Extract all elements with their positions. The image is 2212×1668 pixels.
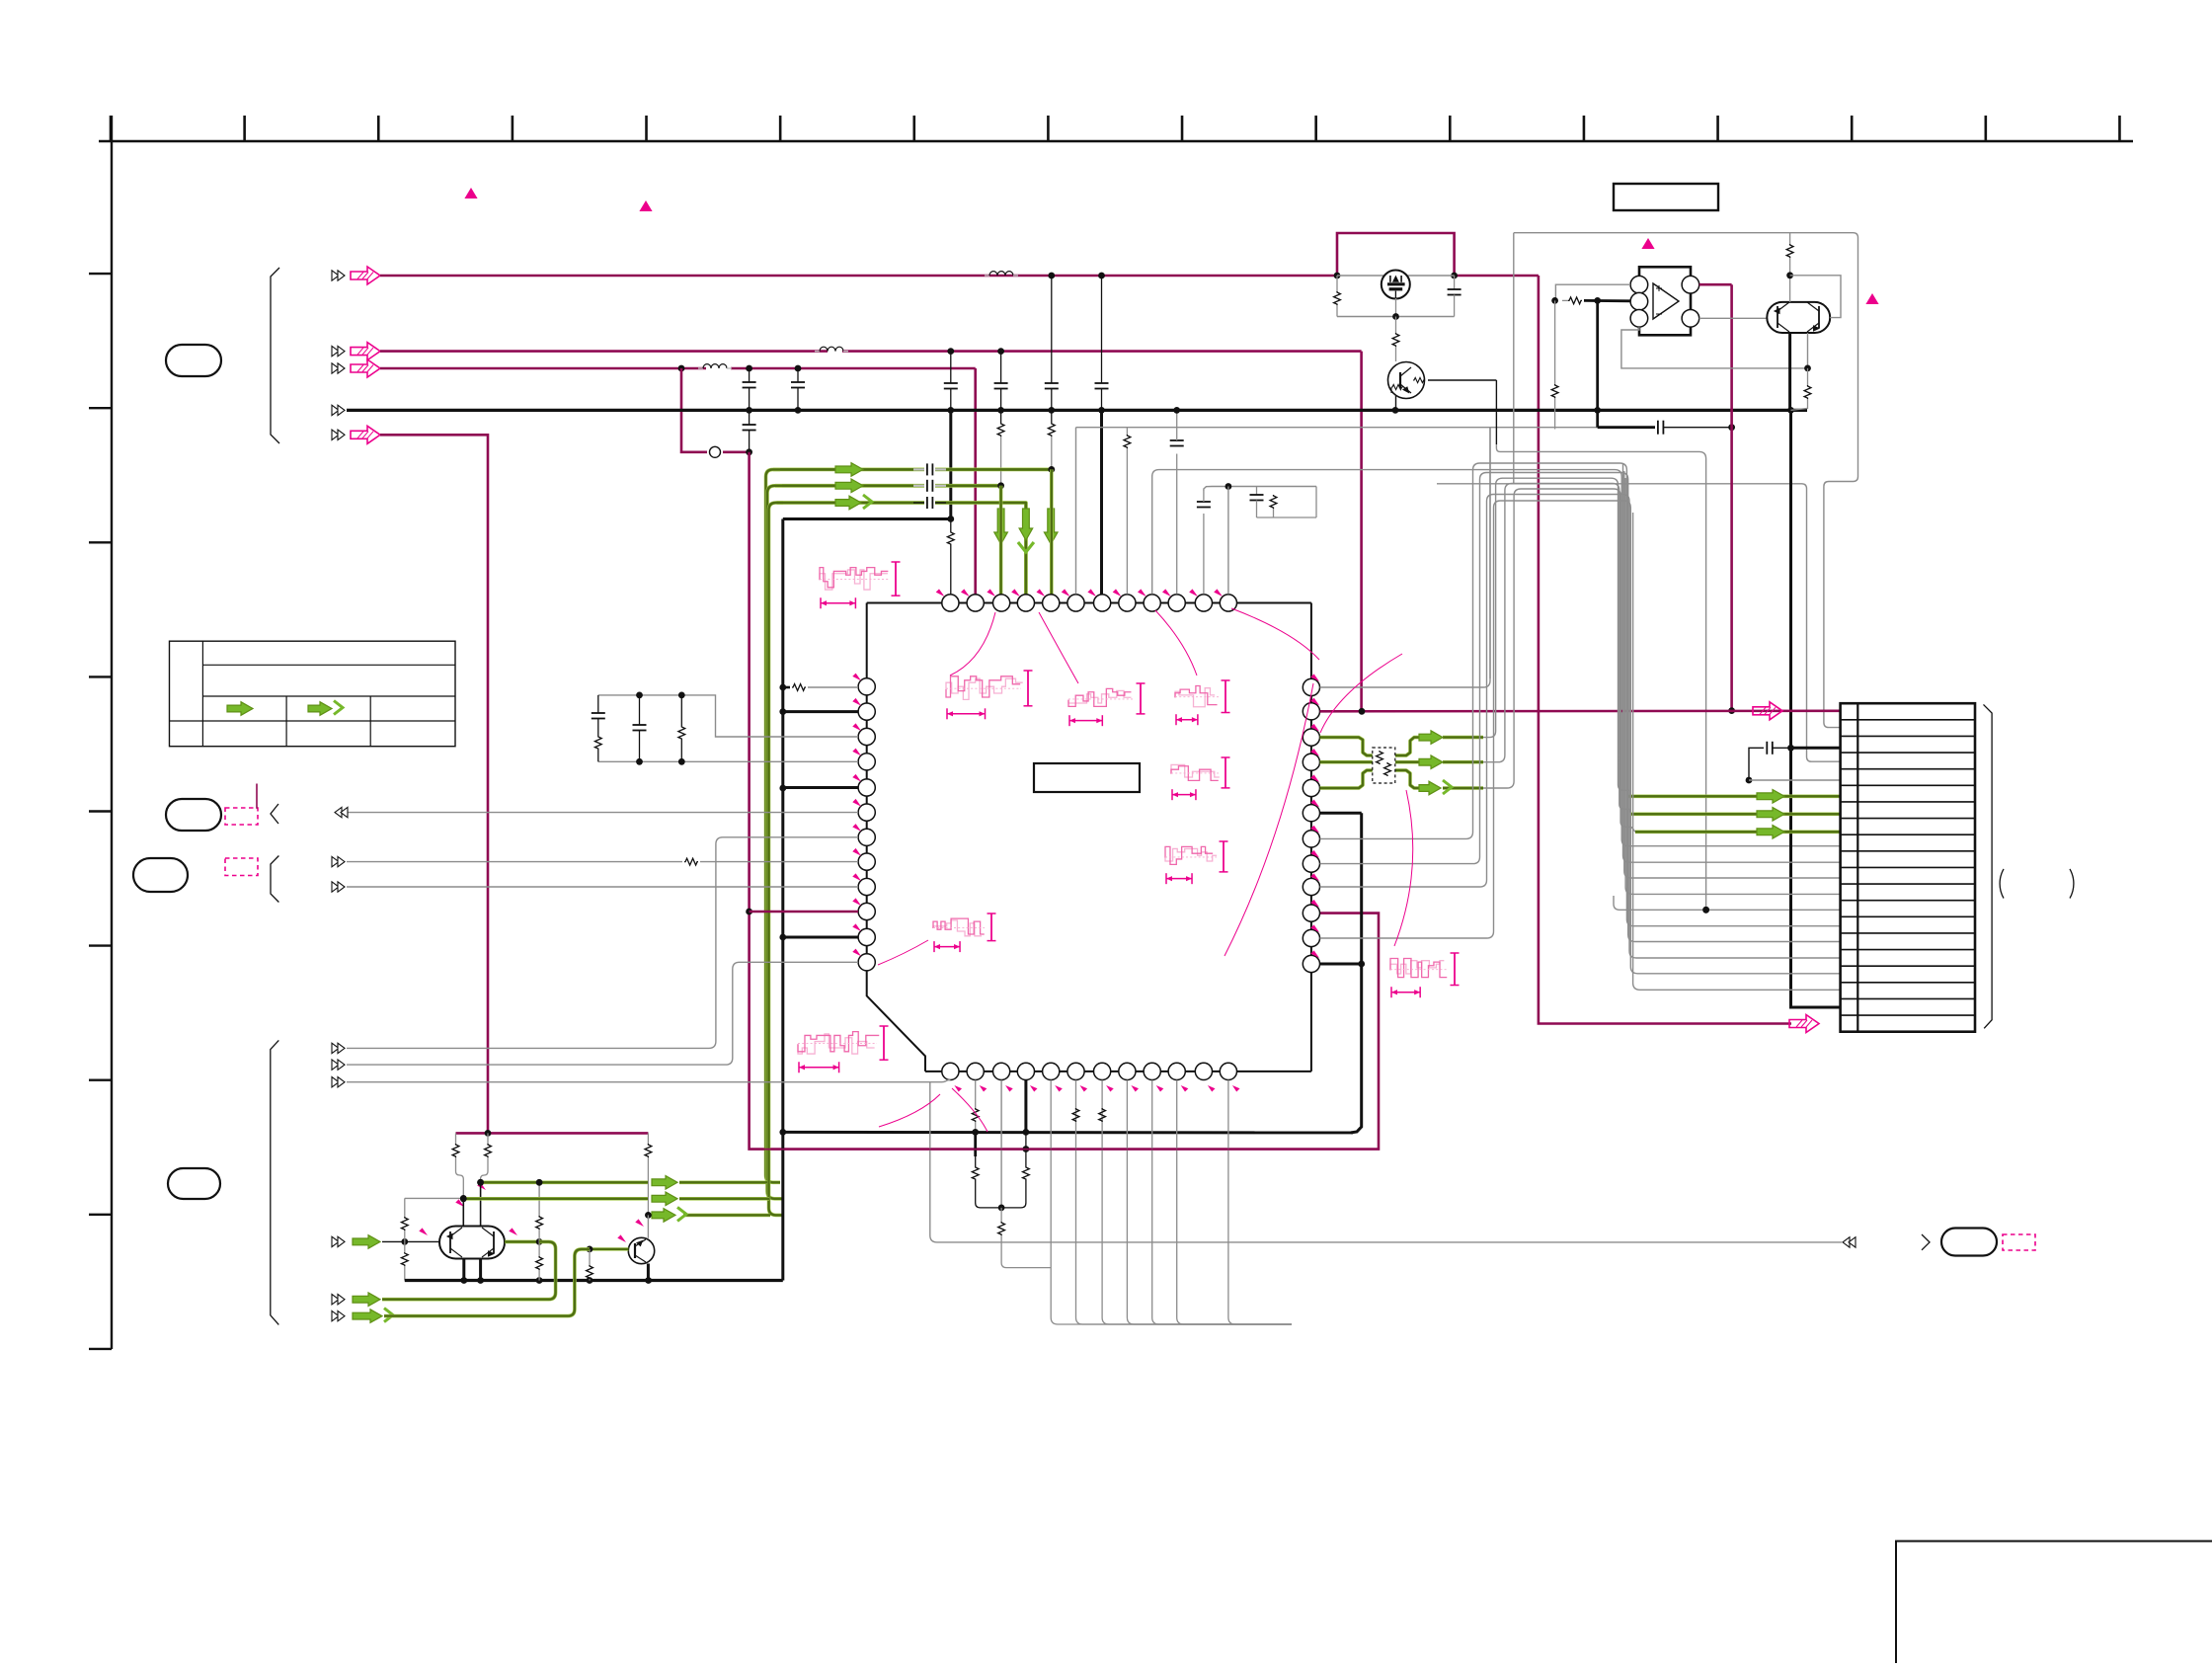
bracket input group 3 bbox=[271, 1040, 279, 1324]
wire cap to row4 bbox=[1773, 747, 1791, 749]
green arrow R4 bbox=[1419, 755, 1443, 769]
paren right bbox=[2070, 869, 2074, 899]
resistor R8 bbox=[678, 695, 685, 761]
wire op-amp minus input bbox=[1584, 299, 1630, 302]
op-amp U2 pins bbox=[1630, 276, 1699, 327]
resistor R2 bbox=[1392, 317, 1399, 362]
dashed ref box 1 bbox=[225, 808, 258, 825]
junction green rows btm bbox=[460, 1179, 652, 1219]
chevron in row 1095 bbox=[332, 1077, 345, 1087]
green arrow down t5 bbox=[1044, 509, 1058, 544]
wire black left vertical bbox=[781, 519, 784, 1281]
signal arrow row1 bbox=[351, 267, 380, 284]
wire pin L7 route bbox=[347, 837, 858, 1049]
green arrow row A bbox=[835, 463, 863, 477]
capacitor C2 bbox=[1658, 421, 1664, 435]
label box (IC ref, top right) bbox=[1614, 184, 1718, 210]
wire Q4 right leg bbox=[1807, 333, 1809, 368]
transistor Q2 stadium bbox=[439, 1227, 505, 1259]
resistor R21 bbox=[645, 1133, 652, 1215]
wire Q5 emitter bbox=[1395, 395, 1397, 410]
inductor L2 row2 bbox=[815, 347, 848, 351]
wire pin L12 route bbox=[347, 962, 858, 1065]
wire pin L4 RC bbox=[598, 760, 858, 762]
wire Q1 source rail bbox=[1337, 298, 1455, 317]
signal arrow to CN row24 bbox=[1789, 1015, 1819, 1033]
resistor R23 bbox=[401, 1241, 408, 1280]
wire green CN row8 bbox=[1635, 830, 1841, 834]
inductor L1 row1 bbox=[985, 272, 1018, 276]
junction CN grey bbox=[1702, 907, 1709, 913]
wire crimson row5 bbox=[380, 435, 488, 1133]
bracket input group 2 bbox=[271, 856, 278, 903]
wire black bus2 bbox=[405, 1279, 783, 1282]
dashed ref box 3 bbox=[2003, 1234, 2035, 1250]
green arrow down t3 bbox=[994, 509, 1008, 544]
wire grey Q1 row bbox=[1337, 275, 1455, 277]
waveform w5 bbox=[1171, 757, 1230, 800]
junction b4 bbox=[1023, 1129, 1030, 1152]
wire black to pin t7 bbox=[1100, 410, 1103, 594]
wire green row A bbox=[773, 467, 1052, 471]
IC U1 bottom pins bbox=[942, 1063, 1237, 1079]
resistor R26 bbox=[587, 1249, 593, 1281]
junction Q4 CN rows bbox=[1787, 745, 1794, 752]
bracket CN right bbox=[1984, 704, 1993, 1028]
junction Q1 bbox=[1392, 313, 1399, 320]
capacitor C16 bbox=[1045, 276, 1059, 410]
bracket input row < bbox=[271, 804, 278, 824]
connector label CN (mid left) bbox=[166, 345, 221, 376]
wire Q3 emitter bbox=[647, 1264, 650, 1281]
wire cap to crimson bbox=[1663, 427, 1731, 429]
wire CN grey row 10 bbox=[1624, 471, 1841, 878]
green arrow g3 bbox=[353, 1309, 393, 1323]
wire grey route R4-CN7 bbox=[1483, 484, 1631, 815]
wire green CN row7 bbox=[1631, 812, 1841, 816]
wire CN row10 bbox=[1614, 896, 1841, 910]
op-amp U2 box bbox=[1639, 267, 1691, 335]
wire minus to bus bbox=[1596, 300, 1599, 410]
pin wedge marks left bbox=[852, 674, 861, 957]
transistor Q3 bbox=[628, 1237, 654, 1263]
junction op-amp in bbox=[1551, 297, 1558, 304]
chevron input row5 bbox=[332, 430, 345, 439]
resistor R11 bbox=[997, 410, 1004, 485]
resistor R1 bbox=[1334, 276, 1341, 317]
wire green CN row6 bbox=[1626, 794, 1841, 798]
paren left bbox=[2000, 869, 2004, 899]
resistor R17 (pin b2) bbox=[972, 1080, 979, 1133]
capacitor C17 bbox=[1095, 276, 1109, 410]
caution triangle 2 bbox=[639, 200, 652, 211]
wire Q2 base bbox=[382, 1240, 439, 1242]
wire pin c1 bbox=[1320, 428, 1491, 687]
chevron input row3 bbox=[332, 363, 345, 373]
junction R12 bbox=[1358, 961, 1365, 968]
signal arrow row3 bbox=[351, 359, 380, 377]
junction bus dots bbox=[746, 407, 1794, 414]
waveform w3 bbox=[1068, 683, 1145, 726]
wire op-amp plus input bbox=[1555, 284, 1630, 300]
wire pin L3 RC bbox=[598, 695, 858, 737]
inductor L3 row3 bbox=[698, 364, 732, 368]
wire crimson thin long bbox=[750, 1149, 1379, 1151]
wire t9 route bbox=[1152, 470, 1841, 846]
wire crimson row3 bbox=[380, 368, 976, 595]
caution triangle 1 bbox=[464, 188, 477, 199]
transistor Q4 internals bbox=[1775, 302, 1819, 332]
resistor R6 bbox=[1791, 368, 1811, 411]
wire Q2 right green bbox=[505, 1240, 539, 1244]
wire black CN row4 bbox=[1791, 747, 1841, 750]
resistor R25 bbox=[536, 1241, 543, 1280]
chevron input g2 bbox=[332, 1295, 345, 1305]
resistor R18 bbox=[998, 1208, 1051, 1268]
mosfet Q1 bbox=[1382, 271, 1410, 299]
chevron input row2 bbox=[332, 346, 345, 356]
capacitor C23 bbox=[913, 497, 946, 509]
wire green g3 bbox=[384, 1249, 590, 1316]
wire black pin R12 bbox=[1320, 963, 1362, 966]
wire green row B bbox=[775, 484, 1001, 488]
wire Q4 base loop bbox=[1790, 276, 1841, 318]
signal arrow CN row1 bbox=[1753, 702, 1782, 720]
wire op-amp out2 bbox=[1699, 317, 1768, 319]
wire pin L11 bbox=[783, 936, 858, 939]
resistor R16 (pin L1) bbox=[783, 684, 858, 691]
chevron in row 1078 bbox=[332, 1060, 345, 1070]
wire black t1 horiz bbox=[783, 517, 951, 520]
junction row3 bbox=[678, 365, 802, 372]
capacitor C3 (CN row4) bbox=[1746, 742, 1841, 784]
chevron input base bbox=[332, 1236, 345, 1246]
green arrow R5 bbox=[1419, 780, 1452, 795]
wire crimson main vertical bbox=[750, 452, 1379, 1150]
wire green pin t3 bbox=[999, 486, 1003, 595]
wire crimson pin R2 bbox=[1320, 709, 1841, 712]
caution triangle 3 bbox=[1641, 238, 1654, 249]
wire grey route R3-CN6 bbox=[1483, 478, 1629, 796]
green arrow row C bbox=[835, 495, 872, 510]
wire CN grey row 19 bbox=[1633, 513, 1841, 990]
chevron out bottom bbox=[1843, 1237, 1856, 1247]
wire crimson row1 bbox=[380, 276, 1791, 1024]
green arrow CN row6 bbox=[1757, 790, 1784, 804]
resistor R22 bbox=[401, 1198, 408, 1241]
dashed ref box 2 bbox=[225, 858, 258, 876]
wire pin L5 bbox=[783, 786, 858, 789]
title block corner bbox=[1896, 1542, 2212, 1664]
transistor Q2 internals bbox=[447, 1228, 494, 1257]
wire grey box op-amp left bbox=[1437, 233, 1841, 762]
junction crimson Q2 bbox=[485, 1130, 492, 1137]
junction crimson L10 bbox=[746, 909, 752, 915]
junction row1 a bbox=[1334, 273, 1458, 279]
junction R2 bbox=[1359, 708, 1366, 715]
bracket input group 1 bbox=[271, 268, 279, 443]
wire Q3 collector bbox=[647, 1215, 649, 1237]
wire green g2 bbox=[382, 1241, 556, 1299]
chevron in L9 bbox=[332, 882, 345, 892]
resistor R19 bbox=[452, 1133, 463, 1198]
wire b2 below bbox=[972, 1132, 1001, 1208]
junction crimson op-amp bbox=[1728, 707, 1735, 714]
legend table bbox=[170, 641, 456, 747]
capacitor C1 bbox=[1448, 276, 1461, 317]
junction t1 bbox=[947, 516, 954, 522]
green arrow base bbox=[353, 1235, 380, 1249]
capacitor C12 bbox=[791, 368, 805, 410]
wire green vert B bbox=[767, 486, 782, 1199]
wire grey route R5-CN8 bbox=[1483, 489, 1635, 832]
wire long bottom bbox=[930, 1082, 1842, 1242]
junction RC net bbox=[636, 692, 685, 765]
capacitor C5 bbox=[633, 695, 647, 761]
junction green A bbox=[1048, 466, 1055, 473]
junction Q2 tops bbox=[460, 1179, 484, 1202]
wire black bus2 right bbox=[783, 1131, 1353, 1135]
junction Q4 r bbox=[1804, 365, 1811, 372]
wire pin R7 bbox=[1320, 463, 1841, 926]
green arrow g2 bbox=[353, 1293, 380, 1307]
wire pin R8 bbox=[1320, 473, 1841, 942]
wires bottom pins b5-b12 bbox=[1051, 1080, 1292, 1324]
wire grey to rowB bbox=[405, 1197, 464, 1199]
wire crimson row Q2 bbox=[456, 1132, 649, 1135]
resistor R7 bbox=[594, 736, 601, 761]
waveform w2 bbox=[946, 671, 1033, 719]
resistor R4 bbox=[1551, 300, 1558, 429]
IC U1 top pins bbox=[942, 595, 1237, 611]
resistor R15 bbox=[1257, 487, 1317, 518]
waveform w4 bbox=[1175, 680, 1230, 725]
resistor R24 bbox=[536, 1216, 543, 1241]
wire grey box op-amp bbox=[1514, 233, 1858, 728]
ferrite bead FB1 bbox=[710, 446, 721, 457]
capacitor C13 bbox=[743, 410, 756, 451]
capacitor C21 bbox=[913, 463, 946, 475]
junction CN row10 bbox=[1702, 907, 1709, 913]
junction Q3 base bbox=[587, 1246, 593, 1253]
wire crimson pin L10 bbox=[750, 911, 858, 913]
wire CN grey row 11 bbox=[1625, 478, 1841, 894]
waveform w9 bbox=[1390, 953, 1460, 997]
pink ref line bbox=[256, 784, 258, 809]
junction minus bbox=[1594, 297, 1601, 304]
wire pin L8 long bbox=[347, 858, 858, 865]
wire row 1095 long bbox=[347, 1080, 950, 1082]
caution triangle 4 bbox=[1865, 293, 1878, 304]
wire op-amp out crimson bbox=[1699, 284, 1732, 710]
wire green vert A bbox=[766, 469, 781, 1182]
green row B bottom bbox=[463, 1197, 769, 1201]
green arrow rowB btm bbox=[652, 1192, 677, 1206]
green row C bottom bbox=[648, 1214, 770, 1218]
transistor Q5 (digital) bbox=[1388, 362, 1425, 399]
pin wedge marks right bbox=[1310, 674, 1319, 958]
junction Q4 base bbox=[1786, 272, 1793, 278]
IC U1 right pins bbox=[1303, 678, 1319, 972]
wire pin L9 long bbox=[347, 886, 858, 888]
junction b2 bbox=[972, 1129, 979, 1136]
green arrow down t4 bbox=[1018, 509, 1034, 552]
wire green row C bbox=[777, 503, 1026, 595]
resistor R13 (pin t1) bbox=[947, 519, 954, 595]
IC U1 outline bbox=[867, 603, 1311, 1072]
connector CN outline bbox=[1841, 703, 1975, 1031]
waveform w1 bbox=[820, 562, 901, 608]
wire CN grey row 9 bbox=[1623, 464, 1841, 862]
wire green vert C bbox=[769, 503, 784, 1215]
wire pin R9 bbox=[1320, 495, 1841, 959]
wire Q4 emitter thick bbox=[1790, 333, 1841, 1007]
wire crimson row2 bbox=[380, 352, 1362, 712]
chevron in L8 bbox=[332, 856, 345, 866]
signal arrow row5 bbox=[351, 426, 380, 443]
green arrow row B bbox=[835, 479, 863, 493]
junction t12 bbox=[1225, 483, 1232, 490]
green arrow rowC btm bbox=[652, 1207, 686, 1222]
green arrow CN row7 bbox=[1757, 808, 1784, 822]
resistor R27 (pin b6) bbox=[1072, 1108, 1079, 1122]
waveform w10 bbox=[1165, 841, 1228, 884]
wire cap branch bbox=[1598, 410, 1655, 427]
capacitor C15 bbox=[994, 352, 1008, 411]
connector label CN (left lower) bbox=[133, 858, 188, 892]
chevron out L6 bbox=[335, 807, 348, 817]
chevron in row 1061 bbox=[332, 1043, 345, 1053]
junction black left bbox=[779, 684, 786, 1136]
junction Q2 base bbox=[401, 1238, 408, 1245]
wire black t1 chain bbox=[949, 410, 952, 518]
signal arrow row2 bbox=[351, 343, 380, 360]
wire b4 below bbox=[1001, 1132, 1029, 1208]
junction bus2 bbox=[460, 1277, 652, 1284]
junction row1 b bbox=[1048, 273, 1105, 279]
capacitor C25 (pin t11) bbox=[1197, 487, 1316, 595]
chevron single bbox=[1922, 1234, 1930, 1250]
pin wedge marks bottom bbox=[954, 1085, 1239, 1092]
wire green R5 bbox=[1320, 770, 1484, 788]
connector label CN (bottom left) bbox=[168, 1168, 220, 1199]
wire pin L6 long bbox=[347, 812, 858, 814]
junction green B bbox=[997, 482, 1004, 489]
chevron input row1 bbox=[332, 271, 345, 280]
label box (IC name) bbox=[1034, 763, 1140, 792]
capacitor C11 bbox=[743, 368, 756, 410]
wire op-amp fb bbox=[1621, 327, 1808, 368]
waveform pointer arcs bbox=[878, 608, 1413, 1132]
capacitor C4 bbox=[592, 695, 605, 736]
legend arrow open bbox=[308, 701, 343, 716]
junction row2 bbox=[947, 348, 1004, 355]
wire green R4 bbox=[1320, 760, 1484, 764]
chevron input g3 bbox=[332, 1311, 345, 1320]
resistor R28 (pin b7) bbox=[1099, 1108, 1106, 1122]
waveform w7 bbox=[933, 913, 996, 952]
resistor pack RP1 bbox=[1373, 748, 1395, 783]
wire Q3 base bbox=[590, 1247, 629, 1250]
wire grey x546 bbox=[538, 1182, 540, 1216]
wire pin b3 bbox=[1000, 1080, 1002, 1208]
green arrow CN row8 bbox=[1757, 826, 1784, 839]
wire black pin R6 bbox=[1320, 813, 1362, 1133]
legend arrow solid bbox=[227, 702, 253, 716]
wire t6-c1 long bbox=[1076, 428, 1598, 678]
wire black bus AVSS bbox=[347, 409, 1807, 412]
connector label CN (bottom right) bbox=[1941, 1229, 1997, 1256]
wedge marks Q2 Q3 bbox=[419, 1182, 644, 1242]
waveform w8 bbox=[798, 1026, 889, 1072]
junction Q2 right bbox=[536, 1238, 543, 1245]
resistor R14 (pin t8) bbox=[1124, 428, 1131, 595]
capacitor C22 bbox=[913, 480, 946, 492]
page border ruler top bbox=[99, 116, 2133, 141]
green row A bottom bbox=[481, 1181, 767, 1185]
resistor R3 bbox=[1562, 297, 1582, 304]
junction cap crimson bbox=[1728, 424, 1735, 431]
wire Q5 base out bbox=[1428, 380, 1706, 910]
wire green pin t5 bbox=[1050, 469, 1054, 594]
transistor Q4 stadium bbox=[1767, 302, 1830, 333]
resistor R5 bbox=[1786, 233, 1793, 302]
capacitor C14 bbox=[944, 352, 958, 411]
capacitor C26 bbox=[1250, 487, 1264, 518]
capacitor C24 (pin t10) bbox=[1170, 407, 1184, 595]
wire pin b4 bbox=[1024, 1080, 1027, 1133]
wire pin R11 bbox=[1320, 501, 1841, 974]
connector label CN (left upper) bbox=[166, 799, 221, 831]
green arrow R3 bbox=[1419, 731, 1443, 745]
wire crimson loop over Q1 bbox=[1337, 233, 1455, 276]
wire pin L2 bbox=[783, 710, 858, 713]
resistor R12 bbox=[1048, 410, 1055, 469]
chevron input row4 (black) bbox=[332, 405, 345, 415]
page border left bbox=[89, 116, 112, 1349]
wire crimson bead branch bbox=[681, 368, 750, 452]
wire Q2 top leads bbox=[463, 1182, 480, 1226]
wire green R3 bbox=[1320, 738, 1484, 755]
wire Q2 bottom leads bbox=[464, 1259, 481, 1281]
junction bead out bbox=[746, 448, 752, 455]
pin wedge marks top bbox=[936, 589, 1223, 596]
junction b3 bbox=[998, 1205, 1005, 1212]
IC U1 left pins bbox=[858, 678, 875, 971]
wire t12 bbox=[1227, 487, 1229, 595]
green arrow rowA btm bbox=[652, 1176, 677, 1190]
resistor R20 bbox=[481, 1133, 492, 1182]
